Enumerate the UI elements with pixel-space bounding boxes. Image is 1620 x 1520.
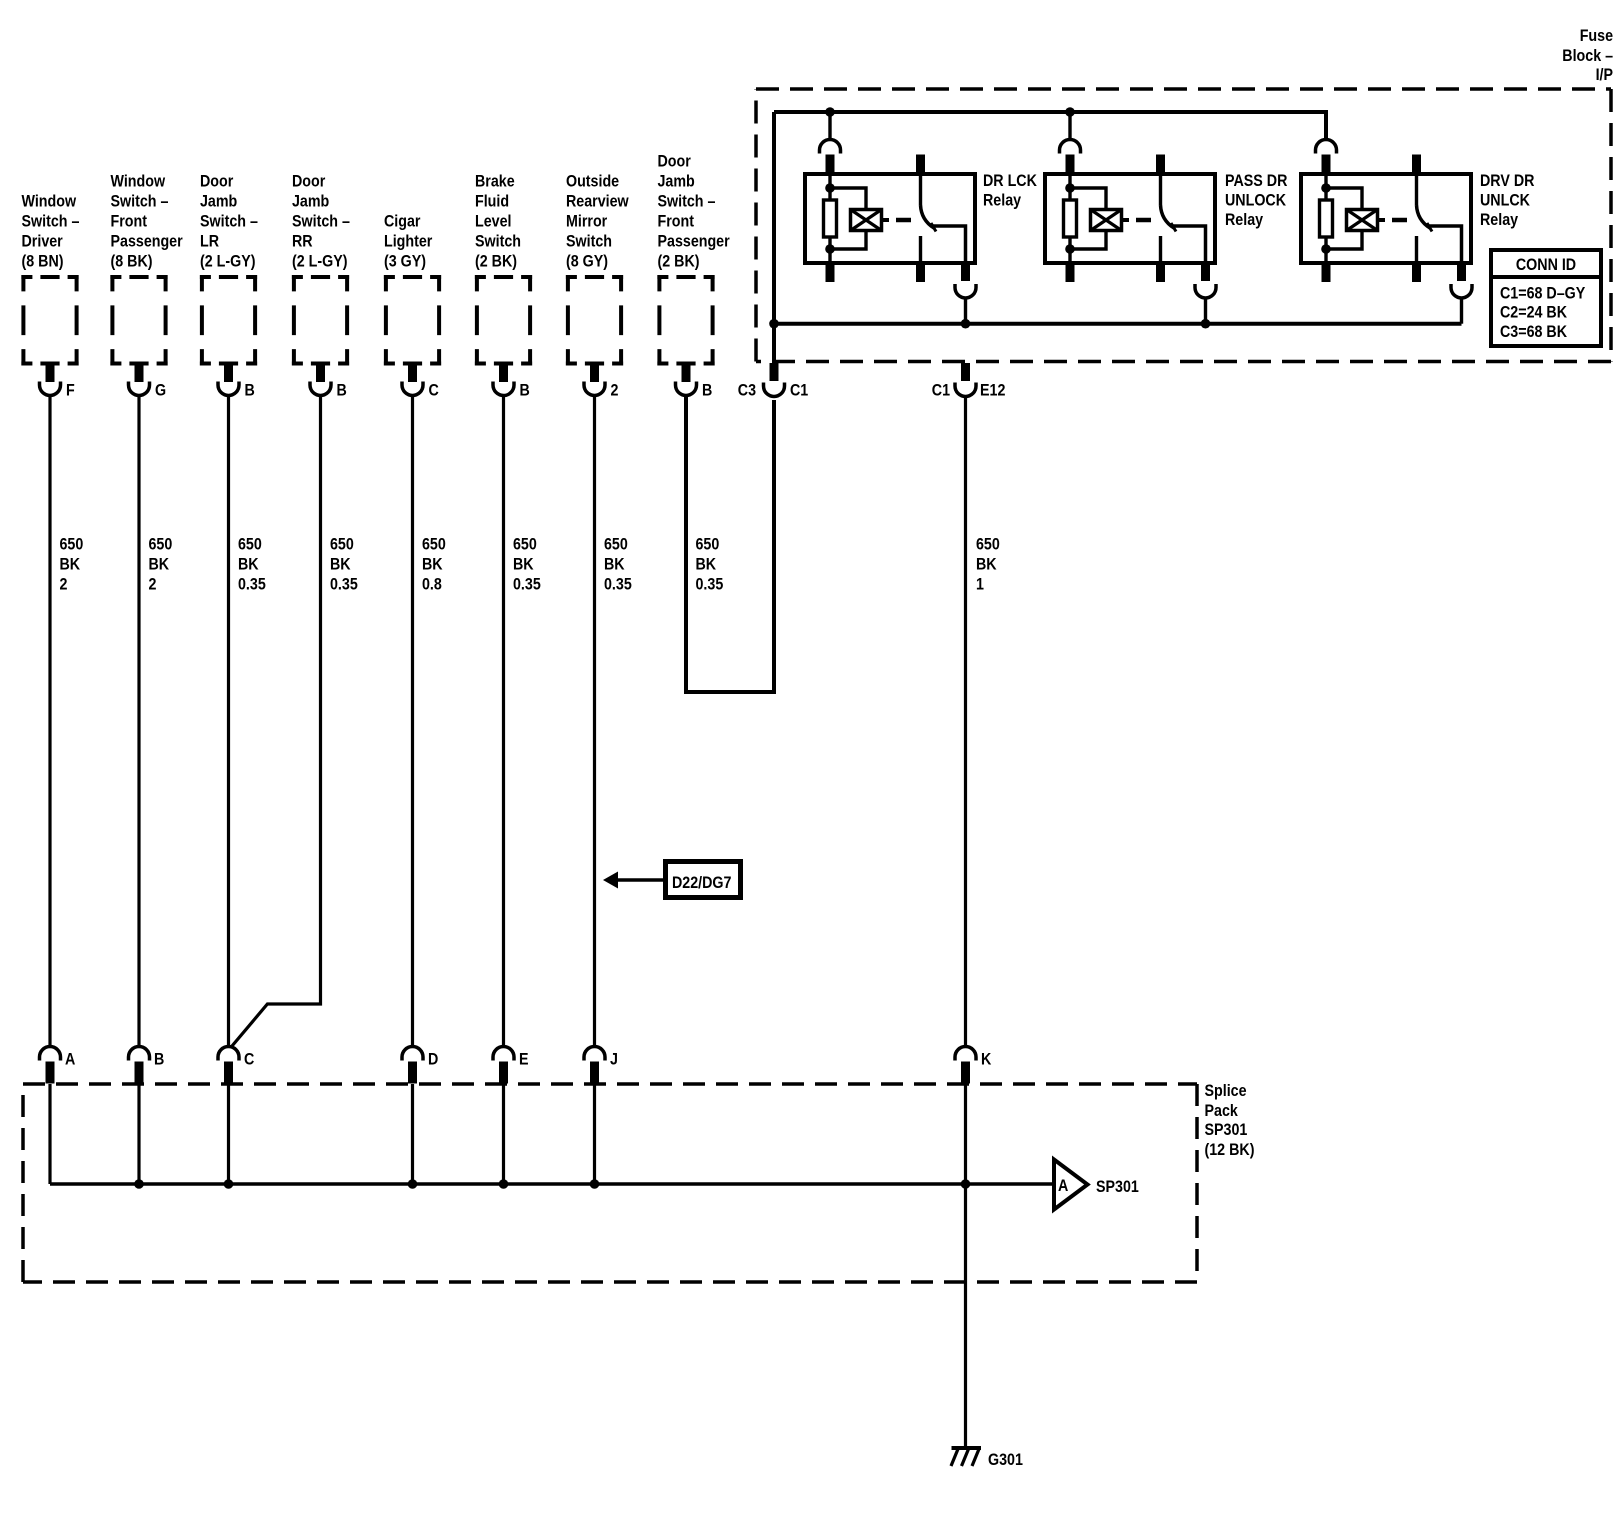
svg-text:E: E	[519, 1050, 529, 1068]
pin K of splice pack	[955, 1047, 976, 1084]
splice symbol SP301 triangle	[1054, 1160, 1088, 1210]
pin J of splice pack	[584, 1047, 605, 1084]
connector box Door Jamb Switch - Front Passenger (2 BK)	[657, 275, 714, 366]
wire pin C to splice bus	[227, 1084, 230, 1184]
wire 650 BK 0.35 from Door Jamb Switch Front Passenger to fuse block C1	[686, 396, 774, 692]
wire pin J to splice bus	[593, 1084, 596, 1184]
splice pack SP301 dashed outline	[23, 1084, 1197, 1282]
pin B of Door Jamb Switch RR	[310, 364, 331, 396]
junction pin J / splice bus	[590, 1179, 600, 1189]
wire pin E to splice bus	[502, 1084, 505, 1184]
svg-text:D22/DG7: D22/DG7	[672, 874, 732, 892]
wire 650 BK 0.35 from Outside Rearview Mirror Switch pin 2	[593, 396, 596, 1047]
junction pin K / splice bus / ground wire	[961, 1179, 971, 1189]
connector C1 of fuse block (C3 side)	[770, 363, 779, 381]
wire 650 BK 0.35 from Door Jamb Switch RR pin B, joins wire C diagonally	[232, 396, 321, 1046]
svg-text:B: B	[154, 1050, 164, 1068]
svg-text:SP301: SP301	[1096, 1178, 1139, 1196]
wire left leg of fuse block bus	[772, 112, 776, 363]
CONN ID table	[1491, 250, 1601, 346]
wire pin D to splice bus	[411, 1084, 414, 1184]
pin E of splice pack	[493, 1047, 514, 1084]
wire 650 BK 2 from Window Switch Front Passenger pin G	[137, 396, 140, 1047]
connector box Cigar Lighter (3 GY)	[384, 275, 441, 366]
svg-text:C: C	[244, 1050, 254, 1068]
wire 650 BK 0.35 from Brake Fluid Level Switch pin B	[502, 396, 505, 1047]
wire pin A to splice bus	[48, 1084, 51, 1184]
relay K1 DR LCK Relay	[805, 140, 976, 299]
svg-text:2: 2	[611, 381, 619, 399]
svg-text:B: B	[245, 381, 255, 399]
wire pin B to splice bus	[137, 1084, 140, 1184]
wire 650 BK 2 from Window Switch Driver pin F	[48, 396, 51, 1047]
pin F of Window Switch Driver	[40, 364, 61, 396]
callout D22/DG7	[666, 862, 741, 898]
wire DRV DR UNLCK relay output to bottom bus	[1460, 299, 1463, 324]
svg-text:CONN ID: CONN ID	[1516, 256, 1576, 274]
pin B of splice pack	[129, 1047, 150, 1084]
node B+ top bus inside fuse block	[774, 112, 1326, 141]
svg-text:A: A	[1058, 1177, 1068, 1195]
svg-text:G301: G301	[988, 1451, 1023, 1469]
svg-text:C1: C1	[790, 381, 808, 399]
fuse block I/P dashed outline	[756, 89, 1611, 362]
wire bottom bus inside fuse block	[774, 322, 1462, 326]
junction pin D / splice bus	[408, 1179, 418, 1189]
wire DR LCK relay output to bottom bus	[964, 299, 967, 324]
ground G301	[951, 1448, 981, 1466]
svg-text:F: F	[66, 381, 75, 399]
junction top bus / PASS DR UNLOCK relay coil feed	[1065, 107, 1075, 117]
svg-text:E12: E12	[980, 381, 1006, 399]
pin C of Cigar Lighter	[402, 364, 423, 396]
connector E12 of fuse block (C1)	[961, 363, 970, 381]
svg-text:C1: C1	[932, 381, 950, 399]
svg-text:B: B	[337, 381, 347, 399]
arrow from D22/DG7 to mirror switch wire	[618, 878, 663, 882]
relay K2 PASS DR UNLOCK Relay	[1045, 140, 1216, 299]
junction pin C / splice bus	[224, 1179, 234, 1189]
pin B of Brake Fluid Level Switch	[493, 364, 514, 396]
wire PASS DR UNLOCK relay output to bottom bus	[1204, 299, 1207, 324]
node SP301 splice bus	[50, 1182, 1054, 1186]
wire pin K to splice bus	[964, 1084, 967, 1184]
junction PASS DR UNLOCK output / bottom bus	[1201, 319, 1211, 329]
relay K3 DRV DR UNLCK Relay	[1301, 140, 1472, 299]
wire feed to PASS DR UNLOCK relay coil	[1068, 112, 1071, 141]
junction top bus / DR LCK relay coil feed	[825, 107, 835, 117]
connector box Outside Rearview Mirror Switch (8 GY)	[566, 275, 623, 366]
wire 650 BK 0.8 from Cigar Lighter pin C	[411, 396, 414, 1047]
connector box Door Jamb Switch - LR (2 L-GY)	[200, 275, 257, 366]
svg-text:B: B	[702, 381, 712, 399]
pin 2 of Outside Rearview Mirror Switch	[584, 364, 605, 396]
svg-text:C3: C3	[738, 381, 756, 399]
svg-text:A: A	[65, 1050, 75, 1068]
wire splice pack K to ground G301	[964, 1184, 967, 1446]
pin D of splice pack	[402, 1047, 423, 1084]
wire 650 BK 0.35 from Door Jamb Switch LR pin B	[227, 396, 230, 1047]
svg-text:G: G	[155, 381, 166, 399]
svg-text:C: C	[429, 381, 439, 399]
wire feed to DR LCK relay coil	[828, 112, 831, 141]
pin C of splice pack	[218, 1047, 239, 1084]
junction bottom bus / C1 drop	[769, 319, 779, 329]
junction pin B / splice bus	[134, 1179, 144, 1189]
svg-text:B: B	[520, 381, 530, 399]
wire 650 BK 1 from fuse block E12 to splice pack K	[964, 396, 967, 1047]
connector box Window Switch - Front Passenger (8 BK)	[110, 275, 167, 366]
svg-text:K: K	[981, 1050, 992, 1068]
svg-text:J: J	[610, 1050, 618, 1068]
junction pin E / splice bus	[499, 1179, 509, 1189]
connector box Window Switch - Driver (8 BN)	[21, 275, 78, 366]
connector box Door Jamb Switch - RR (2 L-GY)	[292, 275, 349, 366]
pin G of Window Switch Front Passenger	[129, 364, 150, 396]
pin B of Door Jamb Switch Front Passenger	[676, 364, 697, 396]
svg-text:D: D	[428, 1050, 438, 1068]
pin B of Door Jamb Switch LR	[218, 364, 239, 396]
connector box Brake Fluid Level Switch (2 BK)	[475, 275, 532, 366]
pin A of splice pack	[40, 1047, 61, 1084]
junction DR LCK output / bottom bus / E12 drop	[961, 319, 971, 329]
